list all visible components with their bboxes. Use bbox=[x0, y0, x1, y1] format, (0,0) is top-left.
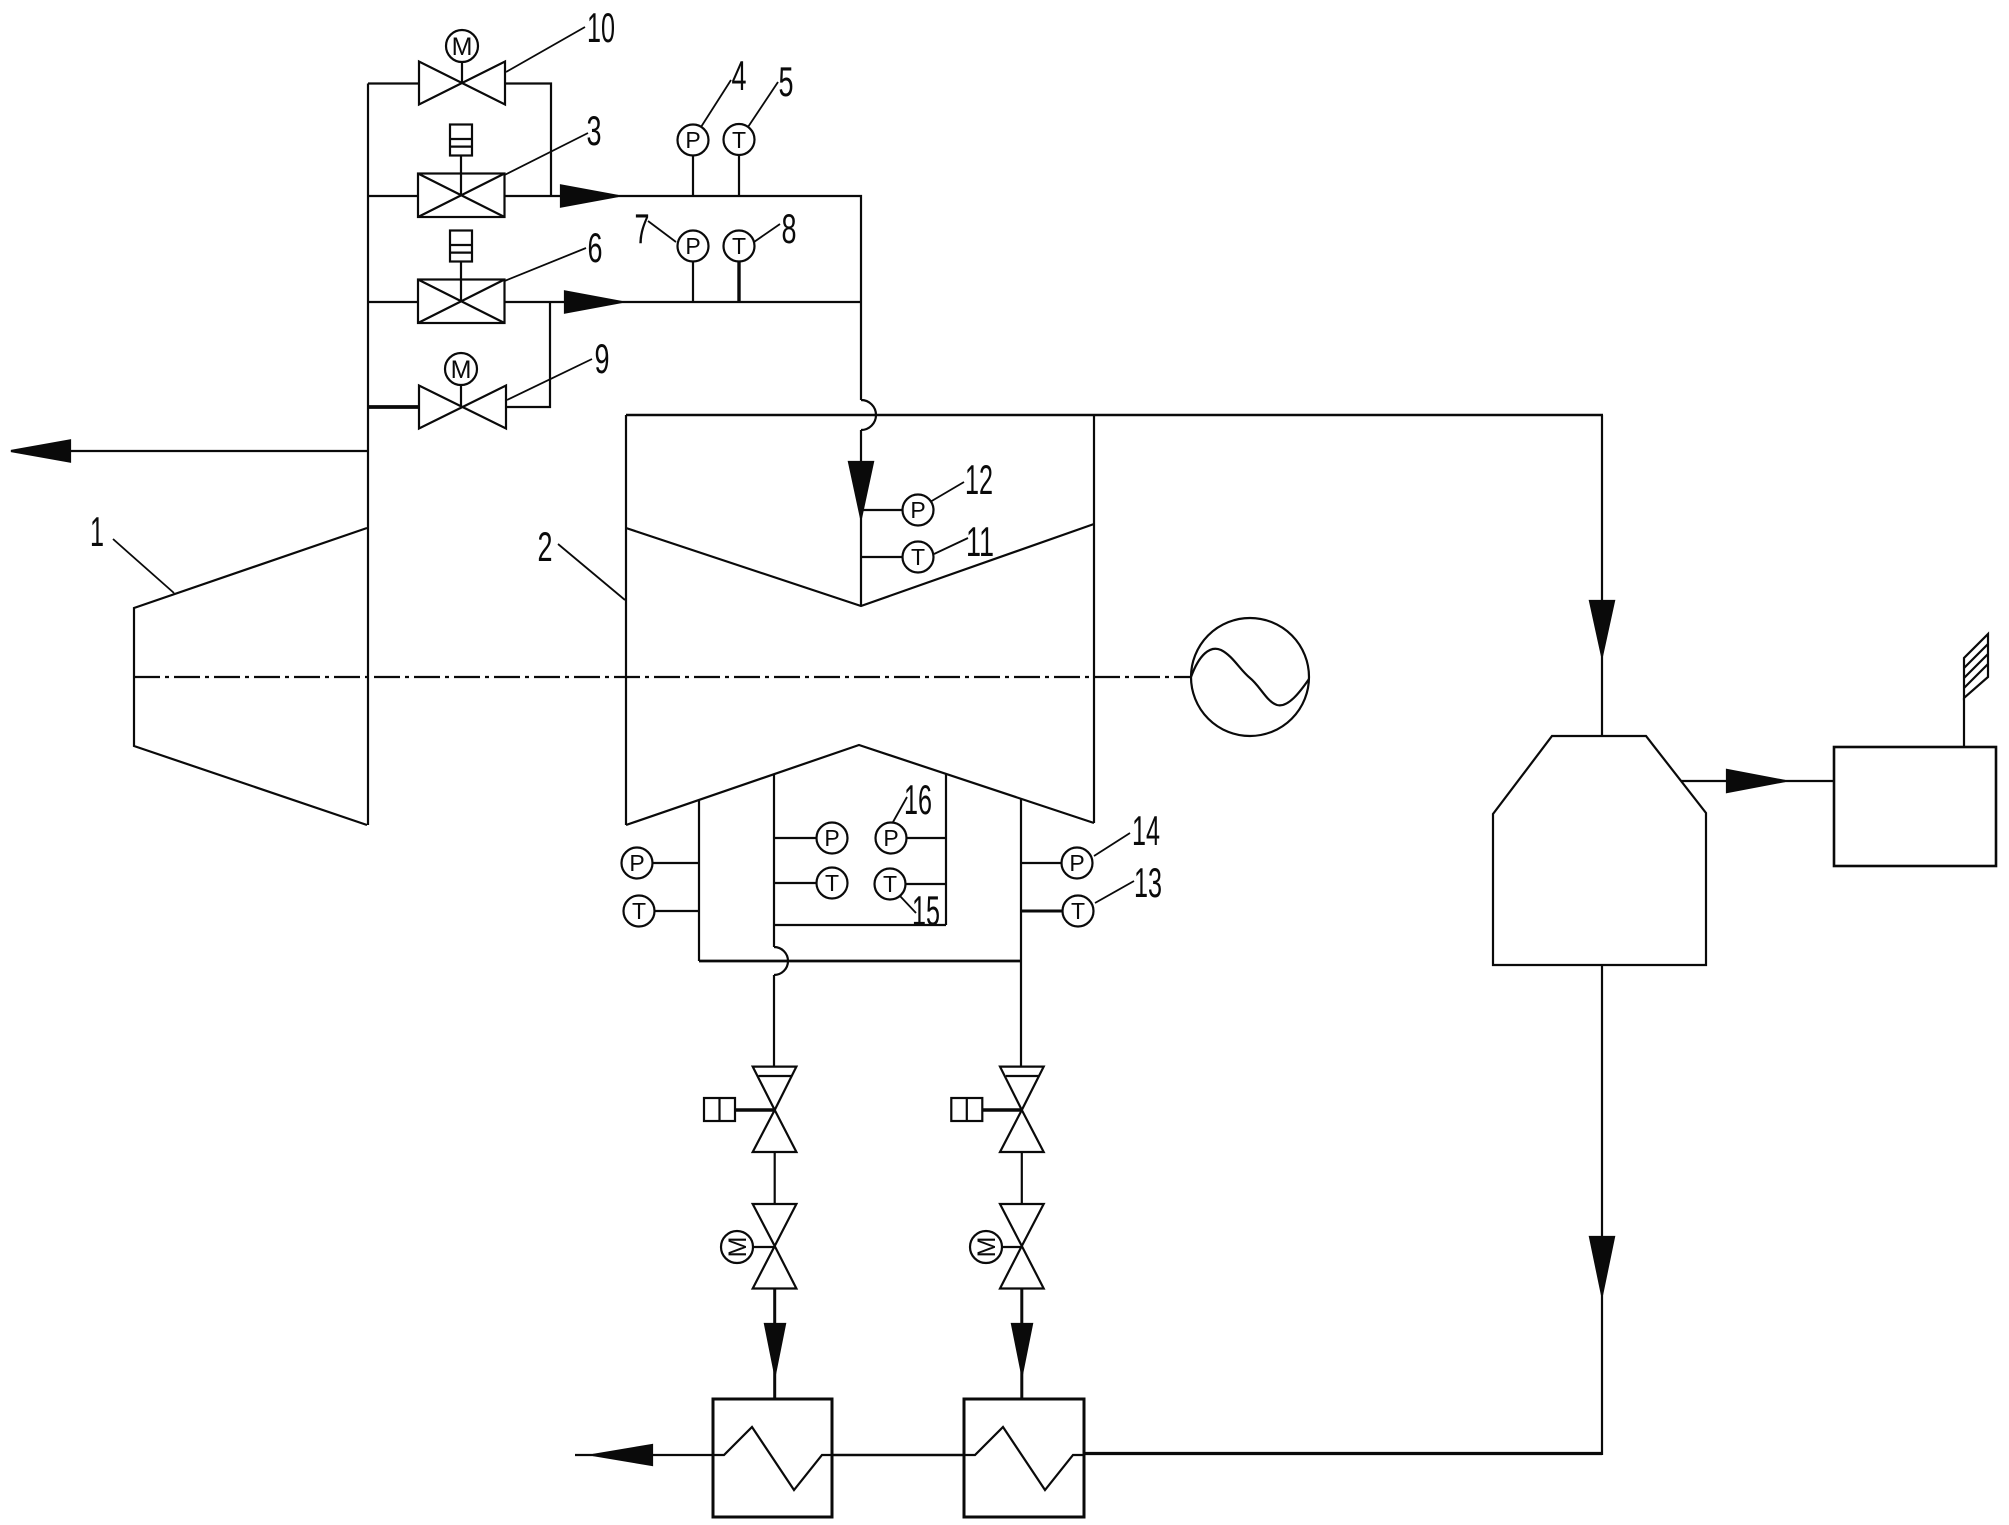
svg-text:M: M bbox=[973, 1237, 1001, 1258]
svg-text:T: T bbox=[732, 233, 746, 259]
arrow heater outlet bbox=[593, 1445, 652, 1465]
wire line 1 outlet to inlet riser bbox=[505, 196, 862, 302]
wire left drain to heater bbox=[773, 1289, 776, 1400]
turbine 1 bbox=[134, 528, 367, 825]
leader 2 bbox=[558, 544, 625, 600]
right drain valve lower bbox=[1000, 1204, 1044, 1289]
svg-text:T: T bbox=[883, 871, 897, 897]
arrow condensate down bbox=[1590, 1237, 1614, 1295]
leader 12 bbox=[930, 482, 964, 502]
svg-text:P: P bbox=[824, 825, 839, 851]
svg-text:T: T bbox=[732, 127, 746, 153]
svg-text:T: T bbox=[825, 870, 839, 896]
svg-text:3: 3 bbox=[587, 107, 602, 154]
wire valve 10 outlet to bypass bbox=[505, 84, 551, 197]
svg-text:4: 4 bbox=[732, 52, 747, 99]
wire extraction line left with arrow bbox=[70, 450, 368, 452]
leader 4 bbox=[701, 80, 731, 127]
arrow on line 2 bbox=[565, 292, 622, 313]
wire branch to valve 9 bbox=[368, 405, 419, 409]
wire left drain pipe with hop bbox=[774, 925, 788, 1067]
vent flag bbox=[1964, 634, 1988, 747]
gauge T11 bbox=[861, 542, 934, 573]
arrow on line 1 bbox=[561, 186, 618, 207]
wire between heaters bbox=[832, 1454, 964, 1457]
wire between left valves bbox=[774, 1152, 776, 1204]
wire line 2 inlet bbox=[368, 301, 418, 303]
svg-text:6: 6 bbox=[588, 224, 603, 271]
svg-text:M: M bbox=[452, 33, 473, 61]
leader 9 bbox=[507, 359, 592, 400]
motor M of right lower valve bbox=[970, 1231, 1002, 1263]
arrow air outlet bbox=[1727, 770, 1785, 792]
svg-text:8: 8 bbox=[782, 205, 797, 252]
wire right drain to heater bbox=[1020, 1289, 1023, 1400]
svg-text:P: P bbox=[685, 233, 700, 259]
gauge P14 right bbox=[1021, 848, 1093, 879]
gauge T8 bbox=[724, 231, 755, 303]
actuator of right upper valve bbox=[951, 1098, 1022, 1121]
valve 10 bbox=[419, 62, 505, 105]
wire condenser inlet drop bbox=[1601, 415, 1603, 736]
svg-text:13: 13 bbox=[1134, 859, 1162, 906]
valve 9 bbox=[419, 385, 506, 429]
leader 5 bbox=[748, 82, 778, 127]
heater right bbox=[964, 1399, 1084, 1517]
wire branch to valve 10 bbox=[368, 82, 419, 84]
leader 3 bbox=[505, 133, 589, 175]
leader 16 bbox=[893, 797, 907, 822]
wire right drain pipe bbox=[1020, 961, 1022, 1067]
motor M of valve 9 bbox=[445, 353, 477, 385]
leader 10 bbox=[506, 27, 585, 72]
svg-text:P: P bbox=[685, 127, 700, 153]
svg-text:12: 12 bbox=[965, 456, 993, 503]
svg-text:T: T bbox=[911, 544, 925, 570]
gauge T13 right bbox=[1021, 896, 1094, 927]
arrow condenser inlet bbox=[1590, 601, 1614, 656]
gauge T5 bbox=[724, 124, 755, 196]
condenser bbox=[1493, 736, 1706, 965]
gauge P7 bbox=[678, 231, 709, 303]
turbine 2 casing bbox=[626, 415, 1603, 825]
wire condenser air outlet bbox=[1681, 780, 1834, 782]
wire heater outlet left bbox=[575, 1454, 713, 1456]
svg-text:15: 15 bbox=[912, 887, 940, 934]
svg-text:2: 2 bbox=[538, 523, 553, 570]
shaft center line bbox=[134, 676, 1191, 678]
left drain valve lower bbox=[753, 1204, 797, 1289]
svg-text:14: 14 bbox=[1132, 807, 1160, 854]
leader 1 bbox=[113, 539, 174, 593]
gauge T15 mid-right bbox=[875, 869, 947, 900]
wire line 1 inlet bbox=[368, 195, 418, 197]
motor M of valve 10 bbox=[446, 30, 478, 62]
leader 8 bbox=[754, 224, 780, 242]
svg-text:M: M bbox=[724, 1237, 752, 1258]
arrow turbine 2 inlet bbox=[849, 462, 873, 518]
actuator of valve 6 bbox=[450, 231, 472, 303]
svg-text:T: T bbox=[1071, 898, 1085, 924]
valve 6 bbox=[418, 280, 505, 324]
air ejector box bbox=[1834, 747, 1996, 866]
gauge T left bbox=[624, 896, 700, 927]
actuator of valve 3 bbox=[450, 125, 472, 197]
exhaust hood outer box bbox=[699, 799, 1021, 961]
leader 11 bbox=[934, 538, 968, 554]
gauge P16 mid-right bbox=[876, 823, 947, 854]
arrow left extraction bbox=[11, 441, 70, 462]
gauge P mid-left bbox=[774, 823, 848, 854]
left drain valve upper bbox=[753, 1067, 797, 1152]
svg-text:P: P bbox=[910, 497, 925, 523]
svg-text:10: 10 bbox=[587, 4, 615, 51]
right drain valve upper bbox=[1000, 1067, 1044, 1152]
gauge P left bbox=[622, 848, 700, 879]
leader 15 bbox=[900, 896, 916, 913]
svg-text:16: 16 bbox=[904, 776, 932, 823]
svg-text:P: P bbox=[1069, 850, 1084, 876]
arrow left drain bbox=[765, 1324, 785, 1374]
wire turbine 2 inlet riser with hop bbox=[861, 302, 876, 606]
svg-text:T: T bbox=[632, 898, 646, 924]
wire main steam pipe vertical bbox=[367, 84, 369, 826]
svg-text:7: 7 bbox=[635, 205, 650, 252]
valve 3 bbox=[418, 174, 505, 218]
generator bbox=[1191, 618, 1309, 736]
leader 6 bbox=[505, 248, 587, 281]
wire condensate line bbox=[1601, 965, 1603, 1455]
wire line 2 outlet bbox=[505, 301, 862, 303]
heater left bbox=[713, 1399, 832, 1517]
exhaust hood inner box bbox=[774, 774, 946, 925]
wire valve 9 outlet bypass up bbox=[506, 302, 550, 407]
wire between right valves bbox=[1021, 1152, 1023, 1204]
gauge T mid-left bbox=[774, 868, 848, 899]
arrow right drain bbox=[1012, 1324, 1032, 1374]
leader 13 bbox=[1095, 881, 1134, 903]
leader 14 bbox=[1094, 833, 1130, 856]
leader 7 bbox=[648, 221, 676, 242]
svg-text:11: 11 bbox=[966, 518, 994, 565]
svg-text:5: 5 bbox=[779, 58, 794, 105]
motor M of left lower valve bbox=[721, 1231, 753, 1263]
actuator of left upper valve bbox=[704, 1098, 775, 1121]
svg-text:P: P bbox=[883, 825, 898, 851]
svg-text:9: 9 bbox=[595, 335, 610, 382]
gauge P4 bbox=[678, 125, 709, 197]
gauge P12 bbox=[861, 495, 934, 526]
svg-text:P: P bbox=[629, 850, 644, 876]
svg-text:M: M bbox=[451, 356, 472, 384]
svg-text:1: 1 bbox=[90, 508, 104, 555]
